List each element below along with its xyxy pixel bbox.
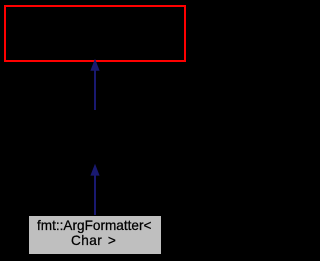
node: fmt::ArgFormatter< Char > [29, 216, 162, 254]
node: truncated base class (red box) [4, 5, 186, 62]
wire: lower edge shaft [94, 175, 96, 215]
inheritance arrows [0, 0, 189, 261]
label line 1 [37, 218, 151, 233]
lower arrowhead [90, 164, 99, 176]
upper arrowhead [90, 59, 99, 71]
label line 2 [71, 233, 116, 248]
wire: upper edge shaft [94, 70, 96, 110]
